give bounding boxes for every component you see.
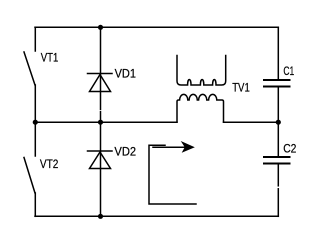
node middle-center junction [98,120,103,125]
capacitor C2 [264,157,290,164]
diode VD2 [88,151,113,169]
wire left rail bottom [34,193,36,216]
wire diode branch upper [100,27,102,109]
wire middle right segment [224,121,279,123]
capacitor C1 [264,80,290,87]
svg-text:VD2: VD2 [114,144,136,158]
arrowhead of current loop [182,142,194,152]
wire diode branch lower [100,122,102,216]
node top junction [98,25,103,30]
svg-text:C2: C2 [283,142,296,156]
svg-text:TV1: TV1 [232,81,250,95]
node middle-right junction [276,120,281,125]
wire middle left segment [35,121,177,123]
svg-text:C1: C1 [283,64,294,78]
switch VT2 [24,122,35,193]
switch VT1 [24,27,35,85]
node middle-left junction [33,120,38,125]
wire bottom rail [35,215,278,217]
transformer TV1 secondary winding (bottom) [177,94,224,122]
svg-text:VT1: VT1 [41,51,59,65]
transformer TV1 primary winding (top) [177,56,226,86]
right rail with capacitor gaps [277,27,279,80]
svg-text:VT2: VT2 [40,157,59,171]
svg-text:VD1: VD1 [115,67,137,81]
wire left rail upper-middle [34,85,36,122]
node bottom junction [98,214,103,219]
current loop arrow [149,145,196,204]
diode VD1 [88,74,113,92]
wire top rail [35,26,278,28]
